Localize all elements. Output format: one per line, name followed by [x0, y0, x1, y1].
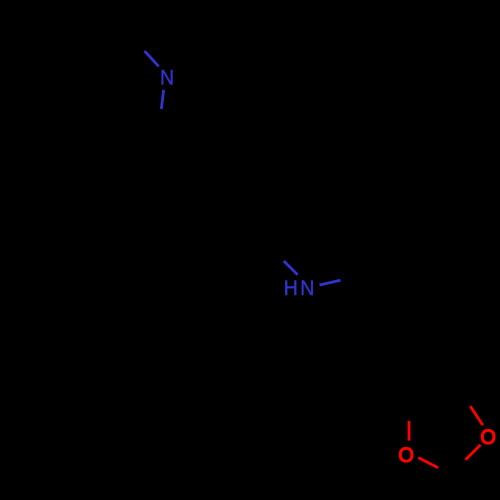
svg-text:O: O: [398, 443, 414, 467]
svg-text:O: O: [480, 425, 496, 449]
svg-text:N: N: [160, 67, 174, 90]
svg-text:N: N: [300, 277, 314, 300]
svg-text:H: H: [284, 277, 298, 300]
